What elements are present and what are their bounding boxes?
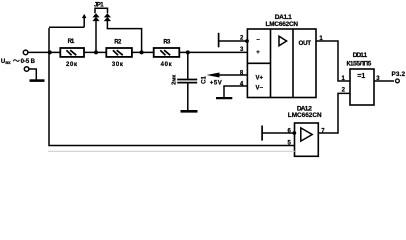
svg-text:V−: V− bbox=[256, 86, 264, 92]
svg-text:+: + bbox=[256, 50, 260, 56]
svg-text:К155ЛП5: К155ЛП5 bbox=[347, 60, 372, 67]
svg-text:20к: 20к bbox=[66, 62, 77, 68]
svg-text:Uвх: Uвх bbox=[1, 59, 11, 66]
svg-text:LMC662CN: LMC662CN bbox=[266, 21, 299, 28]
svg-text:0-5: 0-5 bbox=[21, 59, 30, 65]
svg-text:V+: V+ bbox=[256, 75, 264, 81]
svg-text:R1: R1 bbox=[68, 39, 75, 45]
svg-text:2мк: 2мк bbox=[172, 75, 178, 85]
svg-text:30к: 30к bbox=[112, 62, 123, 68]
svg-text:В: В bbox=[31, 59, 36, 65]
svg-text:=1: =1 bbox=[357, 73, 365, 80]
svg-text:R2: R2 bbox=[114, 39, 122, 45]
svg-text:R3: R3 bbox=[163, 39, 171, 45]
svg-text:LMC662CN: LMC662CN bbox=[288, 112, 322, 119]
svg-text:JP1: JP1 bbox=[94, 2, 104, 8]
svg-text:OUT: OUT bbox=[299, 40, 312, 47]
svg-text:40к: 40к bbox=[161, 62, 172, 68]
svg-text:+5V: +5V bbox=[210, 81, 222, 87]
svg-text:C1: C1 bbox=[202, 76, 208, 84]
svg-text:DA1.1: DA1.1 bbox=[275, 14, 292, 21]
svg-text:P3.2: P3.2 bbox=[392, 71, 406, 78]
svg-text:DD1.1: DD1.1 bbox=[353, 52, 368, 59]
svg-text:−: − bbox=[256, 38, 260, 44]
